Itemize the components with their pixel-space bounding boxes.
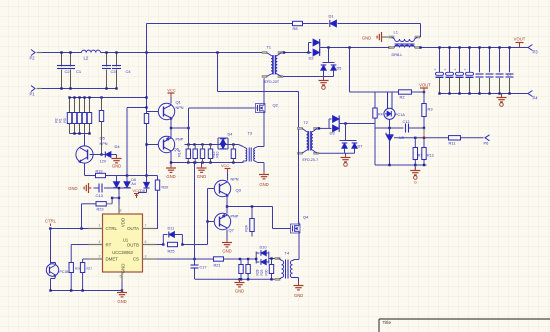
- capacitor C3: [102, 53, 116, 89]
- wire Q6 collector gnd: [170, 152, 172, 168]
- resistor R8: [293, 21, 303, 31]
- svg-text:+: +: [454, 68, 456, 72]
- svg-text:6: 6: [145, 240, 147, 244]
- optocoupler PC1A: [384, 92, 405, 128]
- svg-text:+: +: [444, 68, 446, 72]
- wire U3 ref: [394, 137, 417, 139]
- svg-text:8: 8: [120, 209, 122, 213]
- svg-text:R21: R21: [214, 264, 221, 268]
- svg-text:P6: P6: [484, 141, 490, 146]
- ground row: [197, 163, 207, 180]
- earth T1 sec: [319, 77, 329, 90]
- wire out rail: [327, 46, 390, 48]
- svg-text:R3: R3: [63, 118, 67, 122]
- capacitor C2: [57, 53, 70, 89]
- svg-text:R8: R8: [293, 26, 299, 31]
- svg-text:PC1A: PC1A: [395, 113, 405, 117]
- resistor R17: [208, 145, 219, 163]
- wire T2 primary bottom: [298, 130, 300, 225]
- wire gate drive Q2: [189, 108, 256, 128]
- capacitor C12: [403, 120, 426, 133]
- wire R19 out: [106, 174, 158, 176]
- resistor R5: [82, 98, 86, 134]
- svg-text:A4: A4: [131, 182, 135, 186]
- svg-text:L2: L2: [84, 56, 89, 61]
- svg-text:1: 1: [99, 224, 101, 228]
- resistor R23: [96, 202, 106, 212]
- svg-text:R19: R19: [96, 170, 103, 174]
- svg-text:NPN: NPN: [100, 142, 108, 146]
- wire OUTB riser: [181, 222, 207, 246]
- diode D10 pair: [255, 246, 278, 265]
- svg-text:D10: D10: [260, 246, 267, 250]
- ground cap bank: [497, 94, 507, 107]
- svg-text:DMET: DMET: [106, 257, 119, 262]
- wire C12 right riser: [423, 128, 425, 138]
- wire riser x127: [126, 108, 128, 182]
- inductor L2: [82, 50, 101, 60]
- resistor R30: [269, 257, 273, 279]
- wire Q2 drain: [263, 79, 266, 104]
- wire R11 line: [415, 137, 448, 139]
- svg-text:RT: RT: [106, 242, 112, 247]
- svg-text:4: 4: [99, 240, 101, 244]
- svg-text:C7: C7: [507, 73, 511, 77]
- svg-text:R23: R23: [97, 208, 104, 212]
- svg-text:R30: R30: [265, 269, 269, 275]
- ground U1: [117, 290, 127, 305]
- resistor R12: [413, 138, 424, 165]
- transformer T2: [298, 121, 319, 162]
- svg-text:12V: 12V: [100, 160, 107, 164]
- svg-text:R2: R2: [400, 95, 406, 100]
- transformer T1: [262, 46, 283, 85]
- wire ctrl left rail: [50, 229, 52, 264]
- svg-text:D1: D1: [329, 14, 335, 19]
- svg-text:P4: P4: [533, 96, 539, 101]
- junction dots bank: [68, 96, 102, 134]
- wire GND pin: [121, 282, 123, 292]
- svg-text:D4: D4: [228, 133, 233, 137]
- svg-text:R1: R1: [59, 118, 63, 122]
- wire T2 top out: [318, 119, 329, 130]
- svg-text:GND: GND: [117, 299, 126, 304]
- svg-text:D7: D7: [358, 145, 363, 149]
- ground T4: [294, 283, 304, 299]
- wire emitter node: [170, 119, 190, 137]
- svg-text:2: 2: [99, 255, 101, 259]
- wire Q7 collector: [226, 230, 228, 242]
- wire R10 top link: [127, 107, 147, 109]
- diode D8: [138, 176, 150, 193]
- resistor R21: [214, 257, 224, 268]
- wire cap bank top bus: [440, 47, 529, 49]
- svg-text:Q1: Q1: [176, 100, 182, 105]
- inductor L1: [389, 30, 420, 58]
- svg-text:D11: D11: [168, 227, 175, 231]
- svg-text:GND: GND: [259, 182, 268, 187]
- svg-text:EFD-20T: EFD-20T: [265, 80, 280, 84]
- diode D1: [329, 14, 337, 28]
- ground Q7: [222, 240, 232, 254]
- svg-text:R3: R3: [428, 107, 434, 112]
- svg-text:Q7: Q7: [229, 228, 235, 233]
- earth T2: [341, 153, 351, 166]
- power VOUT fb: [419, 83, 431, 92]
- resistor R2a: [72, 98, 76, 134]
- svg-text:C4: C4: [126, 69, 132, 74]
- wire L1 right up: [419, 37, 439, 49]
- ground C13: [68, 183, 91, 193]
- port P6: [461, 135, 490, 146]
- diode D5 pair: [321, 48, 342, 77]
- svg-text:GND: GND: [294, 293, 303, 298]
- wire OUTB: [157, 243, 165, 245]
- resistor R3: [422, 92, 434, 128]
- wire CS out: [224, 258, 257, 260]
- svg-text:7: 7: [145, 224, 147, 228]
- svg-text:Q3: Q3: [236, 188, 242, 193]
- capacitor bank C21-C28: [434, 46, 514, 94]
- svg-text:NPN: NPN: [231, 178, 239, 182]
- wire VDD riser: [111, 187, 120, 205]
- wire bank bottom bus: [70, 134, 90, 146]
- resistor R16: [200, 145, 204, 163]
- svg-text:R2: R2: [55, 118, 59, 122]
- svg-text:P3: P3: [533, 50, 539, 55]
- wire T2 sec bottom: [319, 152, 355, 154]
- wire CS line: [157, 258, 214, 260]
- port P1: [30, 86, 42, 97]
- diode D2 pair: [309, 39, 329, 61]
- label bank: [55, 118, 68, 122]
- wire T1 sec top: [283, 51, 310, 53]
- capacitor C4: [112, 53, 131, 89]
- resistor R25: [168, 242, 178, 253]
- wire gate Q4: [273, 207, 291, 229]
- power VOUT top: [514, 37, 526, 48]
- resistor R26: [69, 263, 81, 291]
- resistor R14: [178, 145, 191, 163]
- svg-text:PNP: PNP: [231, 215, 239, 219]
- resistor R11: [449, 136, 461, 146]
- optocoupler PC1B: [46, 263, 69, 291]
- svg-text:D4: D4: [115, 144, 121, 149]
- port P3: [520, 45, 539, 55]
- svg-text:OUTB: OUTB: [127, 242, 139, 247]
- diode D4b pair: [218, 133, 232, 150]
- transistor Q3: [214, 178, 241, 197]
- svg-text:R14: R14: [178, 150, 182, 156]
- wire RT: [71, 245, 88, 263]
- svg-text:+: +: [434, 68, 436, 72]
- capacitor C13: [94, 184, 113, 199]
- transistor Q7 PNP: [214, 213, 238, 232]
- svg-text:T4: T4: [285, 251, 290, 256]
- svg-text:EFD-20-7: EFD-20-7: [303, 158, 319, 162]
- wire VDD top: [118, 204, 120, 207]
- svg-text:VCC: VCC: [167, 88, 176, 93]
- transformer T4: [275, 251, 296, 281]
- resistor R1: [67, 98, 71, 134]
- wire R23 left riser: [82, 204, 97, 229]
- svg-text:R13: R13: [427, 154, 434, 158]
- wire fb bottom rail: [375, 128, 427, 166]
- svg-text:C17: C17: [200, 266, 207, 270]
- wire Q4 drain: [298, 223, 300, 225]
- wire Q6 base: [145, 143, 158, 145]
- transistor Q5: [76, 136, 108, 164]
- wire OUTA stub: [157, 228, 159, 230]
- mosfet Q4: [291, 215, 310, 234]
- svg-text:+: +: [464, 68, 466, 72]
- diode D6 pair: [113, 176, 137, 189]
- svg-text:DR8-L: DR8-L: [392, 53, 403, 57]
- svg-text:R28: R28: [256, 269, 260, 275]
- wire fb mid rail: [375, 127, 404, 129]
- svg-text:5: 5: [120, 275, 122, 279]
- resistor R29: [246, 259, 269, 279]
- svg-text:GND: GND: [197, 174, 206, 179]
- transistor Q1: [158, 100, 183, 120]
- ground T3: [259, 163, 269, 188]
- svg-text:D2: D2: [309, 56, 315, 61]
- svg-text:P2: P2: [30, 56, 36, 61]
- svg-text:R24: R24: [245, 225, 249, 231]
- wire T4 right top: [295, 259, 300, 261]
- svg-text:GND: GND: [112, 164, 121, 169]
- wire top boost rail: [147, 24, 421, 38]
- resistor R10: [144, 106, 148, 175]
- resistor R24: [245, 205, 255, 236]
- resistor R6: [87, 98, 91, 134]
- svg-text:GND: GND: [68, 186, 77, 191]
- op-amp U1 UCC28063: [89, 205, 157, 282]
- svg-text:T2: T2: [304, 121, 308, 125]
- shunt U3 TL431: [386, 128, 404, 165]
- svg-text:GND: GND: [166, 174, 175, 179]
- svg-text:G: G: [414, 181, 417, 185]
- resistor R20: [155, 176, 168, 191]
- svg-text:C3: C3: [111, 69, 117, 74]
- svg-text:T3: T3: [248, 132, 252, 136]
- svg-text:Title: Title: [383, 320, 392, 325]
- resistor R15: [193, 145, 197, 163]
- svg-text:OUTA: OUTA: [127, 226, 139, 231]
- ground fb: [410, 165, 420, 185]
- wire bottom rail: [49, 289, 122, 291]
- svg-text:GND: GND: [362, 36, 371, 41]
- capacitor C17: [191, 163, 207, 280]
- svg-text:UCC28063: UCC28063: [112, 250, 133, 255]
- wire fb top rail: [375, 91, 399, 93]
- wire x217 path: [218, 53, 300, 130]
- resistor R28: [239, 259, 243, 279]
- svg-text:R11: R11: [449, 141, 457, 146]
- title block: [379, 319, 550, 332]
- wire Q4 source: [298, 233, 300, 260]
- svg-text:L1: L1: [394, 30, 399, 35]
- diode D3 pair: [329, 116, 346, 136]
- ground for D4: [112, 156, 122, 169]
- wire drive2 bottom rail: [195, 278, 277, 280]
- power VCC stub: [133, 189, 145, 198]
- mosfet Q2: [254, 103, 279, 113]
- resistor R19: [96, 170, 106, 178]
- svg-text:T1: T1: [267, 46, 271, 50]
- transformer T3: [243, 132, 264, 163]
- svg-text:R20: R20: [162, 186, 169, 190]
- svg-text:R10: R10: [216, 151, 220, 157]
- wire drive row rails: [170, 143, 244, 163]
- diode D7 pair: [340, 124, 363, 154]
- svg-text:CTRL: CTRL: [45, 219, 57, 224]
- svg-text:D3: D3: [330, 131, 336, 136]
- svg-text:VOUT: VOUT: [514, 37, 526, 42]
- wire Q1 base: [147, 111, 159, 113]
- wire Q5 emitter: [85, 163, 96, 175]
- wire feedback riser: [350, 48, 376, 93]
- svg-text:R27: R27: [87, 267, 93, 271]
- resistor R3a: [77, 98, 81, 134]
- svg-text:Q5: Q5: [100, 136, 106, 141]
- power VCC Q3: [221, 164, 231, 181]
- svg-text:VOUT: VOUT: [419, 83, 431, 88]
- svg-text:R25: R25: [168, 250, 175, 254]
- svg-text:C13: C13: [96, 193, 104, 198]
- wire T4 right bottom: [296, 278, 299, 285]
- svg-text:R4: R4: [378, 113, 383, 117]
- wire T1 sec bottom: [283, 76, 334, 78]
- wire row feed: [188, 128, 190, 145]
- wire CTRL: [45, 219, 88, 230]
- ground Q6: [166, 165, 176, 179]
- port P2: [30, 50, 42, 61]
- resistor R27: [80, 263, 92, 291]
- wire input L bottom: [37, 88, 117, 90]
- junction dots input: [60, 51, 218, 89]
- diode D4 zener 12V: [90, 144, 121, 164]
- svg-text:R29: R29: [260, 269, 264, 275]
- wire Q2 source to T3: [263, 113, 265, 147]
- svg-text:VCC: VCC: [221, 164, 229, 168]
- wire R2 right: [412, 91, 426, 93]
- resistor R18: [231, 145, 235, 163]
- svg-text:NPN: NPN: [176, 106, 184, 110]
- svg-text:Q2: Q2: [273, 103, 279, 108]
- svg-text:3: 3: [145, 255, 147, 259]
- svg-text:D5: D5: [337, 67, 342, 71]
- resistor R13: [422, 138, 434, 165]
- wire DMET: [83, 259, 89, 263]
- svg-text:P1: P1: [30, 92, 36, 97]
- resistor R2: [399, 90, 412, 100]
- svg-text:PNP: PNP: [176, 138, 184, 142]
- svg-text:PC1B: PC1B: [60, 270, 70, 274]
- svg-text:GND: GND: [222, 249, 231, 254]
- port P4: [528, 91, 538, 101]
- svg-text:Q4: Q4: [303, 215, 309, 220]
- svg-text:CS: CS: [133, 257, 139, 262]
- wire R23 right: [106, 198, 112, 204]
- resistor R4: [373, 92, 383, 128]
- wire Q3 emitter node: [226, 196, 273, 214]
- resistor R7: [99, 98, 103, 156]
- svg-text:C2: C2: [65, 69, 71, 74]
- capacitor C1: [66, 53, 82, 89]
- wire riser x146: [146, 24, 148, 114]
- diode D11: [163, 227, 182, 245]
- ground drive2: [235, 279, 245, 293]
- wire Q3 base rail: [206, 189, 214, 223]
- svg-text:U1: U1: [123, 238, 129, 243]
- transistor Q6 PNP: [158, 136, 183, 152]
- wire OUTA riser: [157, 190, 159, 228]
- svg-text:C12: C12: [403, 120, 410, 124]
- wire bank top bus: [70, 96, 148, 98]
- svg-text:GND: GND: [121, 264, 126, 274]
- wire cap bank bottom bus: [440, 93, 529, 95]
- svg-text:C1: C1: [76, 69, 82, 74]
- svg-text:GND: GND: [235, 289, 244, 294]
- svg-text:CTRL: CTRL: [106, 226, 118, 231]
- wire D3 out: [344, 122, 375, 124]
- ground L1: [362, 32, 389, 42]
- wire input L top: [37, 52, 263, 54]
- svg-text:VDD: VDD: [121, 218, 126, 227]
- power VCC Q1: [167, 88, 176, 104]
